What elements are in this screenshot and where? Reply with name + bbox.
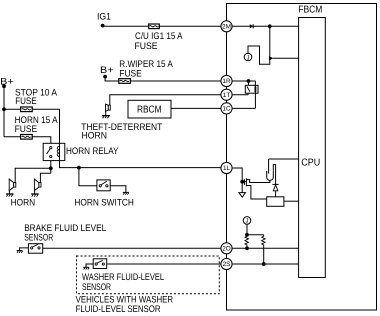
theft-deterrent horn: [106, 104, 111, 111]
terminal B+ left: [2, 84, 6, 88]
joint connector J (bottom): [243, 217, 251, 225]
wire B+ to pin 1R: [105, 77, 221, 81]
svg-text:HORN: HORN: [11, 198, 36, 209]
relay switch contacts: [47, 147, 52, 158]
wire relay switch down to node A: [50, 161, 52, 174]
svg-text:RBCM: RBCM: [137, 104, 162, 115]
terminal B+ upper: [103, 75, 107, 79]
svg-text:FUSE: FUSE: [15, 96, 37, 107]
svg-text:FUSE: FUSE: [15, 124, 37, 135]
svg-text:J: J: [247, 54, 250, 61]
wire RBCM to 1C: [171, 107, 221, 109]
svg-text:HORN SWITCH: HORN SWITCH: [74, 197, 134, 208]
wire coil box to CPU: [284, 200, 299, 202]
dashed option box: [77, 256, 220, 294]
brake fluid level sensor switch: [28, 244, 42, 254]
junction node on 2M line: [268, 24, 272, 28]
wire node A to left horn: [15, 168, 51, 182]
wire 1C line inside: [232, 107, 255, 109]
washer fluid-level sensor switch: [93, 259, 107, 269]
wire 2M to CPU: [232, 25, 299, 27]
svg-text:1R: 1R: [222, 78, 231, 85]
coil bar inside module: [254, 86, 256, 92]
wire 1T to theft-deterrent horn: [110, 95, 221, 106]
diode D1 on 2M line: [250, 24, 253, 28]
diode D2 (flyback): [273, 184, 279, 196]
pin 2M: [221, 21, 232, 32]
joint connector J (top): [244, 53, 252, 61]
fuse C/U IG1 15 A: [149, 24, 160, 29]
junction node on B+ vertical: [2, 107, 6, 111]
relay coil: [57, 143, 59, 160]
wire brake sensor to 2Q: [43, 247, 221, 249]
svg-text:FUSE: FUSE: [135, 41, 158, 52]
horn (left): [9, 179, 16, 191]
wire 2S to CPU: [232, 263, 299, 265]
node B junction: [77, 166, 81, 170]
pin 1C: [221, 103, 232, 114]
junction node on 2S line: [262, 262, 266, 266]
wire relay coil to 1L: [60, 161, 221, 168]
wire HORN fuse line to relay switch: [4, 137, 51, 144]
svg-text:B+: B+: [100, 65, 114, 76]
fuse STOP 10 A: [21, 107, 33, 112]
svg-text:CPU: CPU: [301, 157, 320, 168]
wire 1R to relay module: [232, 80, 255, 82]
wire R1 to 2Q line: [246, 246, 248, 249]
svg-text:1L: 1L: [223, 165, 231, 172]
wire horn switch to ground: [110, 186, 126, 193]
fuse R.WIPER 15 A: [119, 79, 131, 84]
wire IG1 to pin 2M: [103, 25, 221, 27]
junction node on 2Q line: [245, 246, 249, 250]
wire J to arrow junction: [248, 46, 270, 64]
ground (brake sensor): [17, 248, 29, 253]
RBCM box: [128, 100, 171, 118]
wire node down into module: [248, 81, 250, 85]
FBCM outer box: [227, 4, 377, 311]
wire capsule top to CPU: [269, 158, 299, 160]
svg-text:HORN RELAY: HORN RELAY: [66, 146, 119, 157]
fuse HORN 15 A: [21, 135, 33, 140]
junction node on 1R line: [247, 79, 251, 83]
wire node A to right horn: [40, 173, 50, 182]
svg-text:FLUID-LEVEL SENSOR: FLUID-LEVEL SENSOR: [76, 304, 161, 315]
wire J down: [246, 224, 248, 235]
junction node at transistor source: [240, 180, 244, 184]
wire 1T line inside: [232, 94, 248, 96]
wire R2 to 2S line: [263, 246, 265, 264]
pin 2S: [221, 258, 232, 269]
solenoid capsule: [267, 159, 274, 180]
svg-text:2S: 2S: [223, 261, 231, 268]
pin 1T: [221, 89, 232, 100]
pin 2O: [221, 243, 232, 254]
horn switch contacts: [99, 181, 108, 187]
relay module box (1R/1T/1C): [245, 85, 258, 93]
switch inside module: [247, 86, 250, 91]
wire B+ vertical: [3, 86, 5, 137]
CPU box U1: [299, 18, 326, 278]
pin 1R: [221, 75, 232, 86]
ground triangle (transistor): [239, 193, 246, 198]
resistor R2: [262, 235, 265, 246]
horn switch box: [97, 180, 110, 191]
ground (washer sensor): [83, 264, 93, 270]
wire STOP fuse line to relay coil: [4, 109, 60, 143]
svg-text:FUSE: FUSE: [119, 69, 142, 80]
wire capsule hook to diode: [273, 165, 275, 185]
wire washer sensor to 2S: [107, 263, 221, 265]
wire arrow to CPU: [273, 57, 299, 59]
svg-text:FBCM: FBCM: [298, 5, 322, 16]
wire module bottom to 1T line: [247, 93, 249, 95]
ground (horn switch): [123, 192, 129, 194]
ground (theft-deterrent horn): [102, 111, 110, 118]
wire node B to horn switch: [79, 168, 97, 186]
transistor Q1 (FET): [242, 178, 270, 199]
node A junction: [49, 166, 53, 170]
wire 1L to transistor gate: [232, 168, 242, 193]
svg-text:J: J: [246, 218, 249, 225]
wire to resistor R2: [247, 234, 264, 236]
wire coil path down to 1C line: [254, 81, 256, 108]
wire junction down to arrow: [269, 26, 271, 56]
ground (left horn): [6, 191, 14, 197]
svg-text:2M: 2M: [222, 24, 231, 31]
svg-text:1T: 1T: [223, 92, 231, 99]
horn (right): [34, 179, 41, 191]
ground (right horn): [31, 191, 39, 197]
svg-text:1C: 1C: [222, 106, 231, 113]
svg-text:2O: 2O: [222, 246, 231, 253]
svg-text:HORN: HORN: [82, 130, 108, 141]
resistor R1: [245, 235, 248, 246]
svg-text:SENSOR: SENSOR: [82, 282, 111, 293]
wire 2Q to CPU: [232, 247, 299, 249]
arrow junction: [269, 56, 273, 61]
relay coil box (inside FBCM): [267, 197, 284, 207]
pin 1L: [221, 162, 232, 173]
junction node below J: [245, 233, 249, 237]
svg-text:IG1: IG1: [97, 12, 111, 23]
horn relay K1 box: [43, 143, 65, 160]
terminal IG1: [101, 24, 105, 28]
svg-text:SENSOR: SENSOR: [24, 233, 53, 244]
